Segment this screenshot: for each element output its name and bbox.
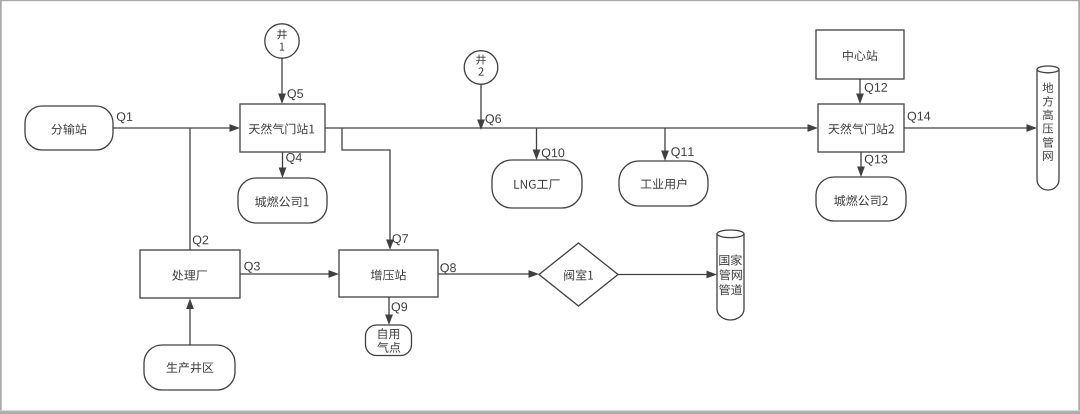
label Q3 xyxy=(244,262,259,273)
node 地方高压管网 (tube) xyxy=(1037,66,1059,190)
label Q10 xyxy=(542,148,565,159)
label Q2 xyxy=(193,236,209,247)
node 工业用户 xyxy=(619,161,708,206)
label Q13 xyxy=(865,155,888,166)
label Q9 xyxy=(392,302,408,313)
wire Q3: 处理厂 to 增压站 xyxy=(240,270,339,278)
wire Q13: 天然气门站2 to 城燃公司2 xyxy=(857,152,865,177)
node 天然气门站1 xyxy=(240,104,325,152)
wire Q6: 井2 into main pipeline xyxy=(477,84,485,130)
node 井2 xyxy=(464,51,498,85)
node 生产井区 xyxy=(144,345,235,390)
wire Q2: branch down to 处理厂 xyxy=(189,128,191,250)
label Q11 xyxy=(671,147,693,158)
label Q6 xyxy=(486,114,502,125)
label Q5 xyxy=(288,89,304,100)
node 增压站 xyxy=(339,250,438,297)
node 井1 xyxy=(265,24,299,58)
wire Q1: 分输站 to 天然气门站1 xyxy=(113,124,240,132)
node 处理厂 xyxy=(140,250,240,298)
wire Q10: branch to LNG工厂 xyxy=(533,128,541,160)
label Q12 xyxy=(865,83,887,94)
node 分输站 xyxy=(25,106,113,150)
node 国家管网管道 (tube) xyxy=(717,230,744,320)
label Q4 xyxy=(286,153,302,164)
wire: 生产井区 to 处理厂 xyxy=(186,299,194,346)
node LNG工厂 xyxy=(492,160,582,208)
node 中心站 xyxy=(816,30,904,79)
node 天然气门站2 xyxy=(818,104,904,152)
wire main pipeline: 天然气门站1 to 天然气门站2 xyxy=(325,124,818,132)
wire Q12: 中心站 to 天然气门站2 xyxy=(856,79,864,104)
wire Q11: branch to 工业用户 xyxy=(661,128,669,161)
wire Q8: 增压站 to 阀室1 xyxy=(438,270,539,278)
wire Q5: 井1 to 天然气门站1 xyxy=(278,58,286,104)
label Q8 xyxy=(440,263,456,274)
label Q14 xyxy=(908,112,931,123)
label Q1 xyxy=(117,112,133,123)
node 城燃公司2 xyxy=(816,177,906,221)
wire: 阀室1 to 国家管网管道 xyxy=(618,271,717,279)
label Q7 xyxy=(393,234,409,245)
wire Q9: 增压站 to 自用气点 xyxy=(385,297,393,325)
node 阀室1 (diamond) xyxy=(539,243,618,306)
wire Q7: branch to 增压站 xyxy=(342,128,394,250)
node 城燃公司1 xyxy=(238,178,327,223)
node 自用气点 xyxy=(366,325,412,356)
wire Q4: 天然气门站1 to 城燃公司1 xyxy=(279,152,287,178)
wire Q14: 天然气门站2 to 地方高压管网 xyxy=(904,124,1037,132)
